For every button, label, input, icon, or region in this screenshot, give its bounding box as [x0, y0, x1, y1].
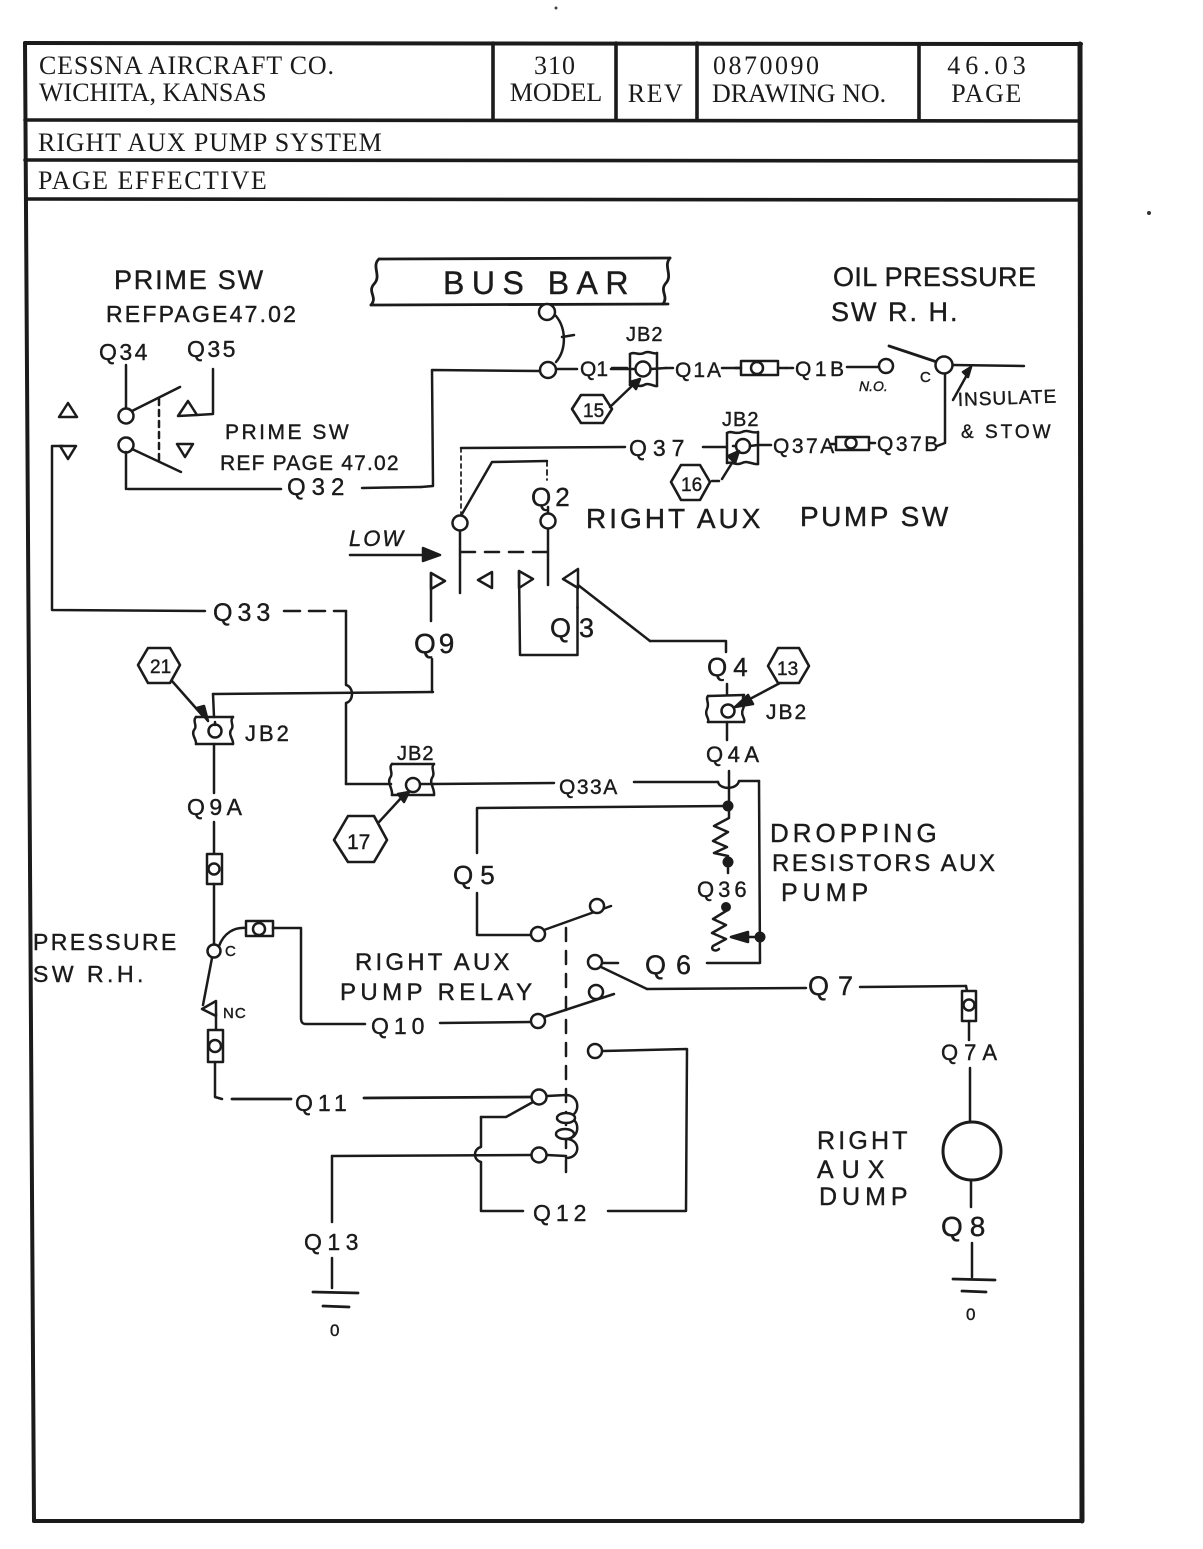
svg-text:WICHITA, KANSAS: WICHITA, KANSAS [39, 78, 267, 107]
svg-text:46.03: 46.03 [947, 51, 1031, 80]
relay coil bottom contact [532, 1148, 547, 1163]
junction JB2 (16) box [727, 431, 758, 464]
svg-text:PAGE: PAGE [951, 79, 1023, 108]
wire Q13 down [331, 1156, 334, 1288]
relay Q6 stub [603, 962, 618, 965]
relay Q10 fixed contact [589, 985, 603, 999]
dropping resistor junction dot 1 [723, 801, 734, 812]
wire NC leg down to Q11 corner [215, 1062, 222, 1099]
relay top horizontal Q9 to JB2-21 [213, 692, 433, 694]
wire Q33 down with hop [346, 611, 352, 784]
schematic hand lettering [33, 262, 1058, 1340]
wire Q37 to left pole vertical [460, 448, 462, 516]
switch link dashed [461, 551, 548, 554]
svg-text:PUMP RELAY: PUMP RELAY [340, 979, 537, 1006]
svg-text:PUMP: PUMP [781, 879, 873, 907]
svg-text:Q12: Q12 [533, 1200, 591, 1226]
contact flag 1 (Q9) [431, 573, 445, 692]
circuit breaker tick [562, 335, 574, 337]
insulate arrow [953, 367, 971, 400]
prime switch link dashed [158, 399, 161, 463]
switch Q2 lead [546, 461, 548, 480]
inline connector pressure sw [246, 921, 273, 936]
svg-text:Q3: Q3 [550, 613, 602, 643]
title block column dividers [493, 43, 919, 120]
relay coil bottom stub [547, 1155, 566, 1172]
wire connector to Q10 corner [273, 928, 365, 1024]
pump motor circle [943, 1122, 1001, 1180]
page speck right [1147, 211, 1151, 215]
svg-text:17: 17 [347, 831, 370, 854]
wire Q33A hop under Q4A [718, 781, 759, 788]
wire Q4A lead [726, 722, 729, 740]
svg-text:DROPPING: DROPPING [770, 818, 941, 848]
svg-text:SW R. H.: SW R. H. [831, 297, 960, 327]
wire Q4A through hop to dot [728, 771, 731, 801]
contact flag 3 (Q3) [519, 571, 578, 655]
title block row lines [25, 120, 1080, 200]
oil pressure switch C contact [936, 357, 953, 374]
wire left triangle down to Q33 [52, 446, 205, 611]
svg-text:Q5: Q5 [453, 860, 502, 890]
wire right bracket down to resistor tap [707, 781, 760, 963]
svg-text:PRIME SW: PRIME SW [225, 421, 351, 444]
Q1 terminal circle [540, 362, 556, 378]
resistor Q36 lower [712, 911, 726, 950]
wire Q8 [971, 1180, 972, 1277]
svg-text:Q4A: Q4A [706, 742, 764, 767]
svg-text:C: C [225, 943, 236, 960]
wire switch horizontal to JB2-17 [346, 783, 391, 786]
wire Q10 segments [440, 1022, 531, 1023]
svg-text:PRESSURE: PRESSURE [33, 929, 179, 955]
svg-text:SW R.H.: SW R.H. [33, 961, 147, 987]
svg-text:0870090: 0870090 [713, 51, 822, 80]
svg-text:MODEL: MODEL [510, 78, 602, 107]
relay Q5 fixed contact [590, 899, 604, 913]
svg-text:Q33: Q33 [213, 599, 275, 627]
pressure switch C contact [208, 945, 221, 958]
prime switch upper left triangle [59, 403, 77, 417]
prime switch Q35 lead [197, 369, 213, 415]
wire Q1 to left and down to Q32 [421, 370, 540, 487]
inline connector NC leg [208, 1030, 223, 1062]
relay blade from Q11 contact [481, 1102, 533, 1117]
svg-text:REFPAGE47.02: REFPAGE47.02 [106, 301, 298, 327]
svg-text:NC: NC [223, 1005, 247, 1022]
svg-text:Q33A: Q33A [559, 776, 619, 799]
title block text [38, 51, 1031, 195]
prime switch upper blade [132, 387, 180, 411]
resistor Q36 upper [713, 811, 729, 858]
svg-text:DRAWING NO.: DRAWING NO. [712, 79, 886, 108]
wire C down to Q37B [937, 374, 945, 446]
switch left pole down [459, 531, 462, 593]
wire Q7A down [969, 1021, 970, 1122]
svg-text:Q37B: Q37B [877, 433, 941, 456]
oil pressure switch N.O. contact [879, 359, 893, 373]
svg-text:RIGHT AUX: RIGHT AUX [355, 949, 513, 976]
svg-text:Q9A: Q9A [187, 794, 247, 820]
svg-text:13: 13 [777, 659, 798, 680]
svg-text:Q2: Q2 [531, 482, 574, 512]
wire Q4 lead [726, 684, 729, 695]
svg-text:RIGHT AUX: RIGHT AUX [586, 503, 763, 534]
svg-text:Q4: Q4 [707, 652, 754, 682]
page speck top [555, 7, 558, 10]
svg-text:Q7: Q7 [808, 971, 862, 1001]
junction JB2 (17) box [389, 764, 434, 795]
resistor tap junction dot 4 [755, 932, 766, 943]
svg-text:Q37: Q37 [629, 435, 690, 461]
svg-text:REF PAGE 47.02: REF PAGE 47.02 [220, 452, 400, 475]
wire Q1A segments [666, 367, 741, 370]
relay Q10 blade [544, 994, 614, 1017]
wire Q11 segments [232, 1097, 531, 1099]
prime switch lower blade [132, 449, 181, 472]
resistor junction dot 2 [723, 857, 734, 868]
wire Q4 horizontal [650, 641, 726, 652]
svg-text:Q1B: Q1B [795, 358, 848, 381]
resistor junction dot 3 [721, 902, 731, 912]
svg-text:Q10: Q10 [371, 1013, 429, 1039]
prime switch lower left triangle [60, 446, 76, 459]
svg-text:21: 21 [150, 657, 171, 678]
junction JB2 (13) box [706, 695, 744, 722]
svg-text:JB2: JB2 [766, 701, 808, 724]
svg-text:Q37A: Q37A [773, 435, 837, 458]
ground Q8 [953, 1279, 995, 1292]
wire Q1 label gap segments [556, 368, 627, 369]
low arrow [350, 548, 440, 561]
inline connector Q1A/Q1B [735, 361, 786, 375]
svg-text:Q1A: Q1A [675, 359, 723, 382]
svg-text:RIGHT AUX PUMP SYSTEM: RIGHT AUX PUMP SYSTEM [38, 128, 383, 157]
switch Q2 circle [541, 514, 556, 529]
relay coil top stub [547, 1095, 566, 1096]
contact flag 4 with blade [563, 569, 650, 641]
svg-text:RIGHT: RIGHT [817, 1127, 911, 1155]
svg-text:DUMP: DUMP [819, 1183, 913, 1211]
svg-text:& STOW: & STOW [961, 422, 1054, 443]
svg-text:BUS BAR: BUS BAR [443, 265, 636, 301]
prime switch upper right triangle [178, 401, 197, 416]
switch left pole circle [453, 516, 468, 531]
wire Q37 left segments [461, 447, 625, 448]
svg-text:15: 15 [583, 401, 604, 422]
svg-text:JB2: JB2 [245, 721, 292, 746]
relay Q6 blade [601, 967, 647, 989]
svg-text:Q13: Q13 [304, 1229, 364, 1255]
relay coil loops [556, 1095, 577, 1158]
svg-text:AUX: AUX [817, 1156, 892, 1184]
wire Q7 segments [647, 986, 966, 989]
svg-text:REV: REV [628, 79, 685, 108]
relay Q6 contact [588, 955, 602, 969]
wire Q33A segments [434, 782, 718, 784]
bus bar [371, 258, 670, 305]
wire Q7 corner down [966, 986, 967, 991]
svg-text:CESSNA AIRCRAFT CO.: CESSNA AIRCRAFT CO. [39, 51, 335, 80]
prime switch lower right triangle [177, 444, 193, 457]
circuit breaker from bus: top terminal [539, 304, 555, 320]
prime switch upper pole circle [119, 409, 134, 424]
svg-text:Q34: Q34 [99, 339, 150, 365]
hexagon 21 [138, 648, 208, 721]
wire Q33 dashed segment [284, 610, 346, 613]
switch left blade [462, 461, 547, 514]
svg-text:PAGE EFFECTIVE: PAGE EFFECTIVE [38, 166, 268, 195]
svg-text:C: C [920, 369, 931, 386]
hexagon 16 [671, 451, 739, 500]
circuit breaker arc [556, 316, 564, 362]
svg-text:Q36: Q36 [697, 877, 751, 902]
svg-text:PUMP SW: PUMP SW [800, 501, 951, 532]
svg-text:16: 16 [681, 475, 702, 496]
wire dot2 down [727, 867, 730, 873]
relay lower fixed contact [588, 1044, 602, 1058]
relay Q5 blade [544, 906, 611, 930]
svg-text:Q6: Q6 [645, 950, 701, 980]
relay Q5 moving contact [531, 927, 545, 941]
wire NC to connector [215, 1014, 218, 1030]
wire Q32 horizontal [128, 487, 421, 489]
pressure switch wire to connector [219, 928, 246, 946]
wire JB2-21 corner down [213, 694, 214, 717]
contact flag 2 [478, 572, 492, 588]
inline connector Q9A [207, 854, 222, 884]
prime switch Q34 lead [125, 365, 128, 408]
wire right of C [953, 365, 1024, 366]
svg-text:JB2: JB2 [397, 743, 434, 765]
svg-text:Q35: Q35 [187, 336, 238, 362]
svg-text:Q32: Q32 [287, 474, 350, 501]
svg-text:OIL PRESSURE: OIL PRESSURE [833, 262, 1036, 292]
svg-text:Q11: Q11 [295, 1090, 352, 1116]
svg-text:Q1: Q1 [580, 358, 608, 381]
svg-text:0: 0 [330, 1321, 339, 1340]
wire Q1B segments [786, 367, 878, 368]
wire Q12 segments [603, 1049, 687, 1211]
resistor tap arrow [731, 932, 755, 942]
switch Q2 pole down [547, 529, 550, 585]
inline connector Q37A/Q37B [836, 437, 875, 450]
svg-text:JB2: JB2 [626, 324, 663, 346]
inline connector Q7A [962, 991, 976, 1021]
relay armature dashed line [565, 928, 568, 1158]
pressure switch blade to NC [203, 958, 212, 1005]
wire Q5 bracket [477, 806, 727, 935]
relay coil top contact [532, 1090, 547, 1105]
svg-text:PRIME SW: PRIME SW [114, 265, 265, 295]
svg-text:JB2: JB2 [722, 409, 759, 431]
svg-text:LOW: LOW [349, 526, 405, 551]
ground Q13 [313, 1292, 358, 1307]
svg-text:Q7A: Q7A [941, 1040, 1003, 1065]
svg-text:Q9: Q9 [414, 628, 457, 659]
wire Q9A lower [213, 884, 216, 944]
wire from lower pole down to Q32 [125, 452, 128, 489]
svg-text:INSULATE: INSULATE [957, 387, 1057, 411]
wire Q9A [213, 744, 216, 854]
relay Q10 moving contact [531, 1014, 545, 1028]
prime switch lower pole circle [119, 438, 134, 453]
hexagon 17 [334, 792, 409, 862]
wire Q12 left vertical with hop [475, 1117, 523, 1211]
svg-text:0: 0 [966, 1305, 975, 1324]
svg-text:310: 310 [534, 51, 576, 80]
svg-text:Q8: Q8 [941, 1211, 992, 1242]
junction JB2 (21) box [193, 717, 233, 744]
pressure switch NC triangle [202, 1001, 216, 1016]
hexagon 15 [572, 379, 640, 423]
wire Q37A segments [758, 444, 836, 445]
svg-text:RESISTORS AUX: RESISTORS AUX [772, 850, 997, 877]
wire coil bottom to Q13 [332, 1155, 531, 1156]
junction JB2 (15) box [611, 352, 666, 386]
oil pressure switch blade [889, 346, 937, 362]
svg-text:N.O.: N.O. [859, 378, 888, 394]
hexagon 13 [735, 648, 809, 707]
